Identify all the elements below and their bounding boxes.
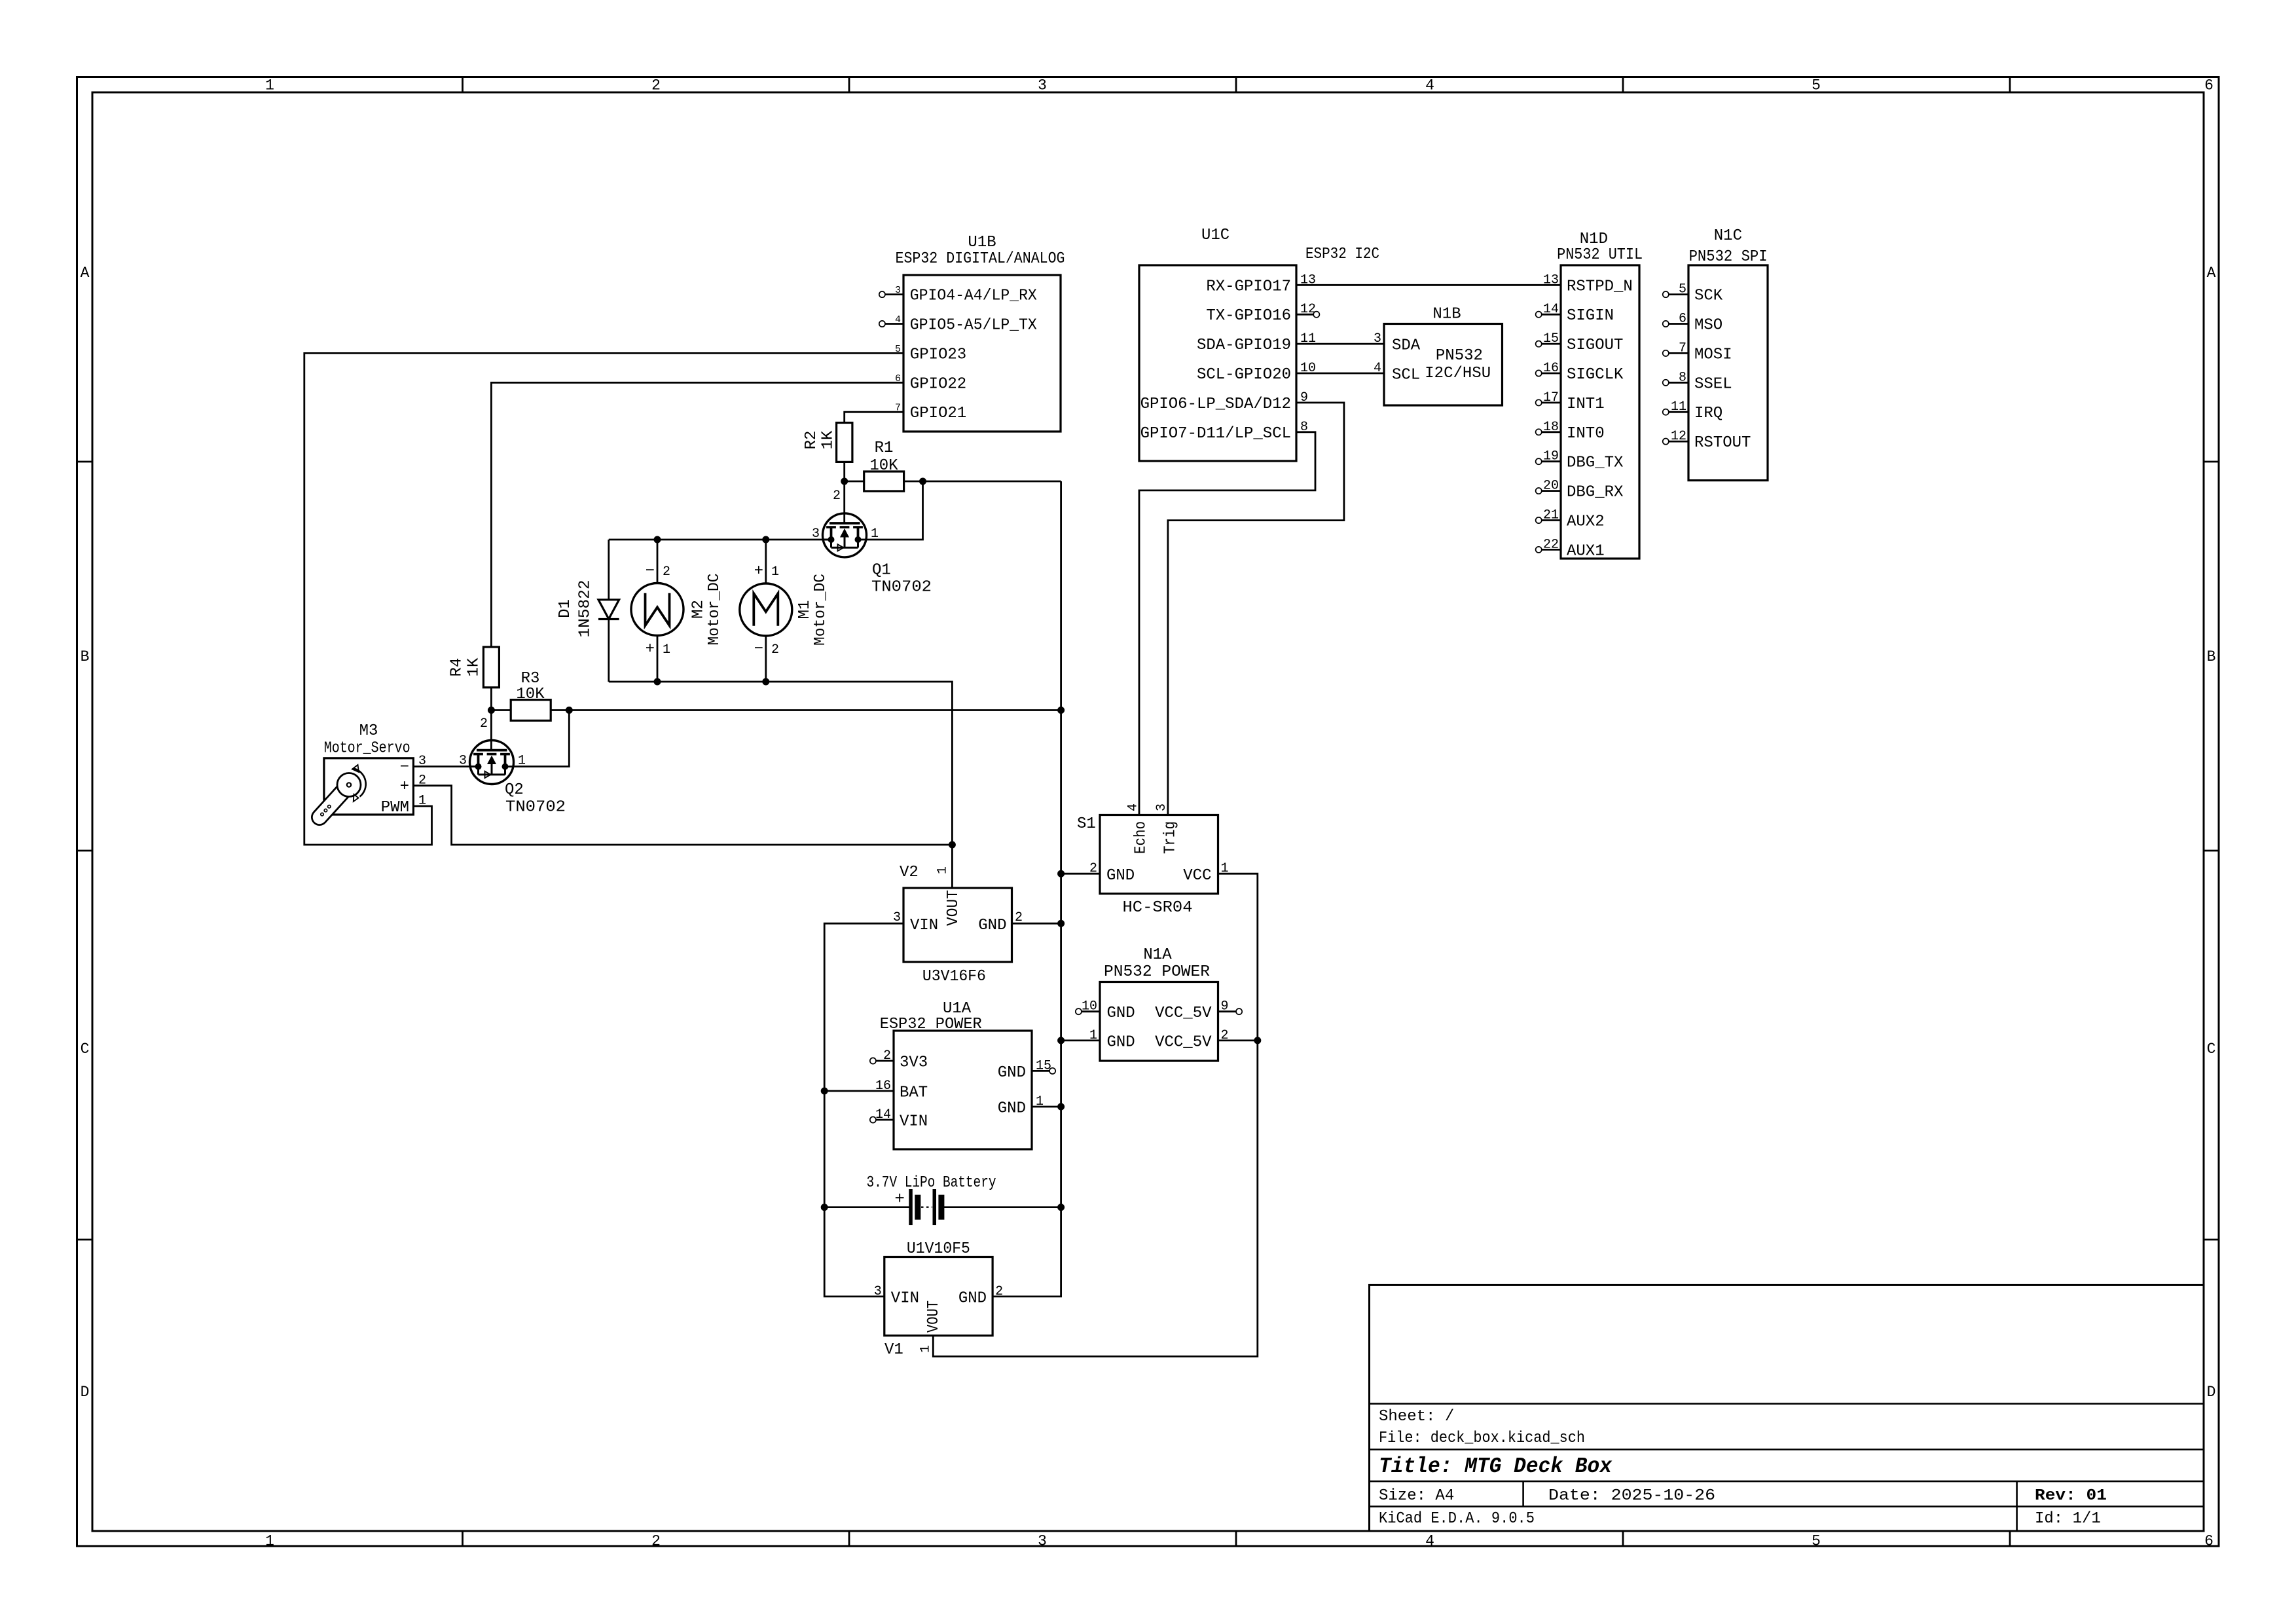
svg-text:Size: A4: Size: A4 [1379, 1487, 1454, 1505]
U1A reference label [943, 1000, 972, 1018]
junction GND column at U1A [1057, 1103, 1065, 1111]
U1B pin 6 GPIO22 [895, 373, 966, 394]
U1A pin 14 VIN [870, 1107, 928, 1131]
junction VOUT net [949, 841, 956, 849]
svg-text:D1: D1 [556, 599, 574, 618]
U1C value label [1305, 246, 1379, 263]
V2 reference label [900, 864, 919, 881]
svg-text:B: B [2207, 648, 2216, 665]
wire U1A GND1 to GND column [1032, 1106, 1061, 1108]
N1C pin 8 SSEL [1663, 370, 1732, 393]
title block size text [1379, 1487, 1454, 1505]
svg-text:12: 12 [1671, 429, 1686, 444]
svg-text:GPIO6-LP_SDA/D12: GPIO6-LP_SDA/D12 [1140, 396, 1291, 413]
M3 value label [324, 740, 410, 758]
svg-text:GND: GND [998, 1064, 1026, 1082]
svg-text:V2: V2 [900, 864, 919, 881]
wire U1C pin13 to N1D pin13 [1296, 284, 1561, 286]
svg-text:3: 3 [893, 910, 901, 925]
N1A pin 10 GND [1076, 999, 1135, 1023]
battery plus marker [894, 1189, 905, 1209]
wire N1A pin1 GND to GND column [1061, 1040, 1100, 1042]
junction R2/R1/Q1 gate [841, 478, 848, 485]
svg-text:9: 9 [1221, 999, 1229, 1014]
Q2 pin3 number [459, 754, 467, 769]
Q1 pin2 number [833, 489, 841, 504]
svg-text:2: 2 [833, 489, 841, 504]
svg-text:SDA-GPIO19: SDA-GPIO19 [1197, 337, 1291, 354]
svg-text:VIN: VIN [900, 1113, 928, 1131]
wire S1 VCC / N1A VCC / V1 VOUT net [933, 874, 1258, 1356]
svg-text:BAT: BAT [900, 1084, 928, 1102]
svg-text:VIN: VIN [891, 1289, 919, 1307]
junction M1 bottom [762, 678, 769, 686]
wire M3 pin2 to VOUT junction [413, 786, 952, 845]
svg-text:16: 16 [875, 1079, 891, 1094]
svg-text:GPIO5-A5/LP_TX: GPIO5-A5/LP_TX [910, 317, 1037, 335]
U1A value label [880, 1016, 982, 1033]
Q2 value label [505, 799, 566, 817]
wire R3 left [491, 709, 511, 711]
svg-text:21: 21 [1543, 508, 1559, 523]
N1D pin 21 AUX2 [1536, 508, 1605, 531]
M3 servo horn icon [319, 765, 366, 817]
M1 pin2 minus marker [754, 640, 779, 658]
svg-text:16: 16 [1543, 361, 1559, 376]
svg-text:+: + [754, 563, 763, 580]
V1 value label [907, 1240, 970, 1258]
M2 value label [706, 574, 723, 646]
svg-text:SDA: SDA [1392, 337, 1421, 355]
svg-text:GPIO7-D11/LP_SCL: GPIO7-D11/LP_SCL [1140, 425, 1291, 443]
R1 reference label [875, 439, 894, 457]
regulator V2 U3V16F6 body [903, 888, 1012, 962]
N1B value label line2 [1425, 365, 1491, 382]
junction VCC column at N1A [1254, 1037, 1261, 1044]
wire U1A BAT stub [824, 1090, 894, 1092]
junction M2 top [654, 536, 661, 544]
resistor R4 1K body [483, 647, 499, 688]
svg-text:PN532 UTIL: PN532 UTIL [1557, 246, 1643, 264]
resistor R2 1K body [837, 423, 852, 462]
N1A pin 1 GND [1089, 1028, 1135, 1052]
U1C pin 8 GPIO7-D11/LP_SCL [1140, 420, 1308, 443]
wire M2 bottom stub [657, 636, 659, 682]
N1D pin 15 SIGOUT [1536, 331, 1624, 354]
transistor Q2 TN0702 [470, 741, 514, 784]
sensor S1 HC-SR04 body [1100, 815, 1218, 894]
junction GND column at R3 net [1057, 707, 1065, 714]
svg-text:TX-GPIO16: TX-GPIO16 [1206, 307, 1291, 325]
M1 reference label [796, 600, 814, 619]
wire GND vertical column [993, 481, 1061, 1297]
svg-text:N1D: N1D [1580, 231, 1608, 248]
servo M3 Motor_Servo body [324, 758, 414, 815]
wire motors bottom rail to VOUT column [609, 682, 953, 845]
svg-text:10: 10 [1082, 999, 1097, 1014]
N1D pin 22 AUX1 [1536, 537, 1605, 560]
svg-text:DBG_RX: DBG_RX [1567, 484, 1623, 502]
svg-text:1: 1 [265, 77, 274, 94]
wire R1 right to GND column [904, 481, 1061, 483]
svg-text:2: 2 [663, 564, 670, 580]
frame row labels right [2207, 265, 2216, 1401]
svg-text:U1V10F5: U1V10F5 [907, 1240, 970, 1258]
svg-text:IRQ: IRQ [1694, 405, 1722, 422]
svg-text:3: 3 [812, 526, 820, 542]
wire Q1 pin3 into symbol [823, 539, 832, 541]
svg-text:GPIO21: GPIO21 [910, 405, 966, 422]
svg-text:GND: GND [998, 1099, 1026, 1117]
svg-text:14: 14 [875, 1107, 891, 1122]
svg-text:N1C: N1C [1714, 227, 1742, 245]
U1B pin 7 GPIO21 [895, 403, 966, 423]
ic N1D PN532 UTIL body [1561, 265, 1639, 559]
svg-text:SIGIN: SIGIN [1567, 307, 1614, 325]
svg-text:I2C/HSU: I2C/HSU [1425, 365, 1491, 382]
M2 pin2 minus marker [646, 563, 670, 580]
svg-text:File: deck_box.kicad_sch: File: deck_box.kicad_sch [1379, 1430, 1585, 1447]
svg-text:TN0702: TN0702 [505, 799, 566, 817]
svg-text:VCC_5V: VCC_5V [1155, 1005, 1212, 1022]
svg-text:10K: 10K [516, 686, 545, 703]
svg-text:PN532 SPI: PN532 SPI [1689, 248, 1768, 266]
svg-text:1N5822: 1N5822 [576, 580, 594, 638]
svg-text:SSEL: SSEL [1694, 375, 1732, 393]
svg-text:SIGCLK: SIGCLK [1567, 366, 1624, 384]
N1C pin 11 IRQ [1663, 399, 1723, 422]
svg-text:A: A [2207, 265, 2216, 282]
svg-text:VIN: VIN [910, 917, 938, 934]
transistor Q1 TN0702 [823, 513, 867, 557]
title block rev text [2035, 1487, 2107, 1505]
svg-text:M3: M3 [359, 722, 378, 740]
N1D pin 19 DBG_TX [1536, 449, 1624, 472]
svg-text:3: 3 [874, 1284, 882, 1299]
N1A pin 9 VCC_5V [1155, 999, 1242, 1023]
svg-text:Motor_DC: Motor_DC [706, 574, 723, 646]
U1C pin 12 TX-GPIO16 [1206, 302, 1316, 325]
svg-text:SIGOUT: SIGOUT [1567, 337, 1623, 354]
motor M2 Motor_DC body [631, 583, 683, 636]
svg-text:2: 2 [995, 1284, 1003, 1299]
wire D1 bottom [608, 619, 610, 682]
wire M1 top stub [765, 540, 767, 583]
Q2 pin1 number [518, 754, 526, 769]
svg-text:Date: 2025-10-26: Date: 2025-10-26 [1548, 1487, 1715, 1505]
svg-text:−: − [754, 640, 763, 658]
svg-text:1: 1 [918, 1345, 933, 1353]
svg-text:2: 2 [771, 642, 779, 657]
D1 value label [576, 580, 594, 638]
title block [1370, 1285, 2204, 1531]
svg-text:RX-GPIO17: RX-GPIO17 [1206, 278, 1291, 295]
R3 reference label [521, 670, 540, 688]
svg-text:SCL: SCL [1392, 367, 1420, 384]
svg-text:U1B: U1B [968, 234, 996, 251]
svg-text:19: 19 [1543, 449, 1559, 464]
svg-text:14: 14 [1543, 302, 1559, 317]
svg-text:3V3: 3V3 [900, 1054, 928, 1072]
svg-text:PWM: PWM [381, 799, 409, 817]
M3 pin 3 minus [400, 754, 426, 777]
N1A value label [1104, 963, 1210, 981]
N1B reference label [1432, 306, 1461, 323]
wire U1B pin7 GPIO21 to R2 [845, 412, 903, 422]
svg-text:VCC: VCC [1183, 867, 1211, 885]
ic U1A ESP32 POWER body [894, 1031, 1032, 1149]
ic N1A PN532 POWER body [1100, 982, 1218, 1061]
D1 reference label [556, 599, 574, 618]
svg-text:5: 5 [1812, 77, 1821, 94]
junction M1 top [762, 536, 769, 544]
svg-text:HC-SR04: HC-SR04 [1123, 899, 1193, 917]
wire M2 top stub [657, 540, 659, 583]
svg-text:INT0: INT0 [1567, 425, 1605, 443]
svg-text:−: − [646, 563, 655, 580]
Q2 pin2 number [480, 716, 488, 731]
svg-text:1: 1 [771, 564, 779, 580]
svg-text:Id: 1/1: Id: 1/1 [2035, 1510, 2101, 1528]
svg-text:7: 7 [1679, 341, 1686, 356]
wire U1C pin9 to S1 Trig [1168, 403, 1344, 815]
svg-text:U1C: U1C [1201, 227, 1230, 244]
junction R1 right / Q1 source [919, 478, 926, 485]
M1 value label [812, 574, 829, 646]
R4 reference label [448, 658, 465, 677]
ic N1B PN532 I2C/HSU body [1384, 324, 1503, 406]
svg-text:4: 4 [1425, 1533, 1434, 1550]
N1B value label line1 [1436, 347, 1483, 365]
wire U1B pin6 GPIO22 to R4 [491, 382, 903, 647]
M3 pin 1 PWM [381, 794, 426, 817]
battery label [867, 1174, 996, 1192]
svg-text:DBG_TX: DBG_TX [1567, 454, 1623, 472]
V1 pin 3 VIN [874, 1284, 919, 1308]
title block kicad text [1379, 1510, 1535, 1528]
S1 pin 3 Trig [1154, 803, 1180, 854]
wire R1 left [845, 481, 864, 483]
svg-text:PN532 POWER: PN532 POWER [1104, 963, 1210, 981]
N1B pin 4 SCL [1374, 361, 1420, 384]
svg-text:GPIO4-A4/LP_RX: GPIO4-A4/LP_RX [910, 287, 1037, 305]
wire U1B pin5 GPIO23 to M3 PWM [304, 353, 903, 845]
svg-text:Echo: Echo [1133, 821, 1150, 854]
wire R3 right to GND column [551, 709, 1061, 711]
junction GND column at V2 [1057, 920, 1065, 927]
N1D pin 14 SIGIN [1536, 302, 1614, 325]
svg-text:V1: V1 [884, 1341, 903, 1359]
battery BT1 3.7V LiPo [909, 1189, 944, 1225]
U1A pin 16 BAT [875, 1079, 928, 1102]
svg-text:C: C [81, 1041, 90, 1058]
U1C pin 9 GPIO6-LP_SDA/D12 [1140, 390, 1308, 413]
svg-text:Motor_Servo: Motor_Servo [324, 740, 410, 758]
svg-text:Q2: Q2 [505, 781, 524, 799]
svg-text:4: 4 [895, 314, 901, 325]
svg-text:VOUT: VOUT [945, 890, 962, 926]
junction battery plus [821, 1204, 828, 1211]
diode D1 1N5822 [598, 600, 619, 619]
Q1 reference label [872, 562, 891, 580]
svg-text:1: 1 [418, 794, 426, 809]
motor M1 Motor_DC body [740, 583, 792, 636]
svg-text:GPIO22: GPIO22 [910, 375, 966, 393]
svg-text:1K: 1K [819, 430, 837, 449]
svg-text:15: 15 [1543, 331, 1559, 346]
svg-text:N1A: N1A [1143, 946, 1172, 964]
N1D pin 13 RSTPD_N [1543, 272, 1633, 295]
svg-text:+: + [646, 640, 655, 658]
svg-text:Trig: Trig [1161, 821, 1179, 854]
svg-text:2: 2 [1015, 910, 1023, 925]
N1C pin 5 SCK [1663, 282, 1723, 305]
wire V2 GND to GND column [1012, 923, 1061, 925]
svg-text:11: 11 [1671, 399, 1686, 415]
svg-text:4: 4 [1125, 803, 1140, 811]
svg-text:A: A [81, 265, 90, 282]
wire U1C pin11 to N1B SDA [1296, 343, 1384, 345]
ic U1C ESP32 I2C body [1139, 265, 1296, 461]
svg-text:MOSI: MOSI [1694, 346, 1732, 363]
wire motors top rail to Q1 pin3 [609, 539, 831, 541]
svg-text:INT1: INT1 [1567, 396, 1605, 413]
wire D1 top [608, 540, 610, 600]
Q1 pin1 number [871, 526, 879, 542]
svg-text:6: 6 [2204, 77, 2214, 94]
V2 pin 3 VIN [893, 910, 938, 934]
wire battery left [824, 1206, 909, 1208]
resistor R1 10K body [864, 471, 904, 491]
U1B pin 3 GPIO4-A4/LP_RX [879, 285, 1037, 305]
svg-text:1: 1 [936, 866, 951, 874]
junction battery minus [1057, 1204, 1065, 1211]
svg-text:D: D [81, 1384, 90, 1401]
svg-text:3: 3 [1038, 1533, 1047, 1550]
U1A pin 15 GND [998, 1058, 1055, 1082]
svg-text:RSTOUT: RSTOUT [1694, 434, 1751, 452]
R3 value label [516, 686, 545, 703]
S1 pin 2 GND [1089, 861, 1135, 885]
svg-text:1: 1 [518, 754, 526, 769]
svg-text:ESP32 I2C: ESP32 I2C [1305, 246, 1379, 263]
svg-text:ESP32 POWER: ESP32 POWER [880, 1016, 982, 1033]
N1D pin 17 INT1 [1536, 390, 1605, 413]
junction R4/R3/Q2 gate [488, 707, 495, 714]
wire V2 VOUT pin stub [951, 845, 953, 888]
frame column labels bottom [265, 1533, 2214, 1550]
svg-text:15: 15 [1036, 1058, 1051, 1073]
svg-text:Rev: 01: Rev: 01 [2035, 1487, 2107, 1505]
U1B reference label [968, 234, 996, 251]
V2 pin 2 GND [978, 910, 1023, 934]
svg-text:5: 5 [1812, 1533, 1821, 1550]
M2 pin1 plus marker [646, 640, 670, 658]
svg-text:18: 18 [1543, 420, 1559, 435]
Q1 pin3 number [812, 526, 820, 542]
svg-text:20: 20 [1543, 479, 1559, 494]
ic U1B ESP32 DIGITAL/ANALOG body [903, 275, 1061, 432]
svg-text:R4: R4 [448, 658, 465, 677]
S1 pin 4 Echo [1125, 803, 1150, 854]
wire Q2 pin1 to R3 junction [514, 710, 570, 767]
svg-text:GPIO23: GPIO23 [910, 346, 966, 363]
U1B value label [896, 250, 1065, 268]
svg-text:GND: GND [1106, 867, 1135, 885]
svg-text:2: 2 [651, 1533, 661, 1550]
svg-text:1: 1 [663, 642, 670, 657]
svg-text:1K: 1K [465, 657, 483, 676]
wire R4 bottom to Q2 gate [490, 688, 492, 750]
svg-text:2: 2 [480, 716, 488, 731]
U1A pin 1 GND [998, 1094, 1044, 1117]
svg-text:5: 5 [1679, 282, 1686, 297]
svg-text:4: 4 [1425, 77, 1434, 94]
svg-text:3: 3 [1154, 803, 1169, 811]
junction R3 right / Q2 source [566, 707, 573, 714]
wire M3 pin3 to Q2 pin3 [413, 766, 479, 767]
wire N1A pin2 VCC_5V stub [1218, 1040, 1258, 1042]
svg-text:2: 2 [1221, 1028, 1229, 1043]
svg-text:U3V16F6: U3V16F6 [922, 968, 986, 986]
R2 reference label [803, 431, 820, 450]
svg-text:SCL-GPIO20: SCL-GPIO20 [1197, 366, 1291, 384]
svg-text:KiCad E.D.A. 9.0.5: KiCad E.D.A. 9.0.5 [1379, 1510, 1535, 1528]
svg-text:2: 2 [651, 77, 661, 94]
wire U1C pin10 to N1B SCL [1296, 373, 1384, 375]
svg-text:SCK: SCK [1694, 287, 1723, 305]
junction BAT column at U1A [821, 1088, 828, 1095]
Q2 reference label [505, 781, 524, 799]
S1 value label [1123, 899, 1193, 917]
V1 pin 2 GND [958, 1284, 1003, 1308]
svg-text:10K: 10K [869, 457, 898, 475]
U1A pin 2 3V3 [870, 1048, 928, 1072]
svg-text:R3: R3 [521, 670, 540, 688]
junction M2 bottom [654, 678, 661, 686]
svg-text:3.7V LiPo Battery: 3.7V LiPo Battery [867, 1174, 996, 1192]
svg-text:Motor_DC: Motor_DC [812, 574, 829, 646]
N1D reference label [1580, 231, 1608, 248]
svg-text:2: 2 [1089, 861, 1097, 876]
svg-text:M2: M2 [689, 600, 707, 619]
wire V2 VIN / U1A BAT / battery+ / V1 VIN column [824, 923, 903, 1297]
wire M1 bottom stub [765, 636, 767, 682]
S1 reference label [1077, 815, 1096, 833]
N1D value label [1557, 246, 1643, 264]
R1 value label [869, 457, 898, 475]
svg-text:17: 17 [1543, 390, 1559, 405]
U1B pin 5 GPIO23 [895, 344, 966, 364]
svg-text:GND: GND [958, 1289, 987, 1307]
Q1 value label [871, 579, 932, 597]
svg-text:1: 1 [1089, 1028, 1097, 1043]
svg-text:6: 6 [1679, 312, 1686, 327]
svg-text:GND: GND [1107, 1033, 1135, 1051]
svg-text:6: 6 [2204, 1533, 2214, 1550]
svg-text:B: B [81, 648, 90, 665]
N1A reference label [1143, 946, 1172, 964]
V1 pin 1 VOUT [918, 1301, 943, 1353]
svg-text:1: 1 [265, 1533, 274, 1550]
svg-text:+: + [894, 1189, 905, 1209]
svg-text:3: 3 [1038, 77, 1047, 94]
svg-text:R1: R1 [875, 439, 894, 457]
svg-text:2: 2 [418, 773, 426, 788]
regulator V1 U1V10F5 body [884, 1257, 993, 1336]
svg-text:S1: S1 [1077, 815, 1096, 833]
resistor R3 10K body [511, 700, 551, 721]
